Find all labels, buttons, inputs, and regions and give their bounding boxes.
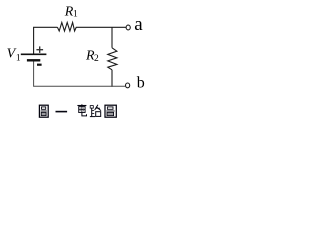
svg-text:1: 1 [16,54,21,64]
svg-text:b: b [137,75,145,92]
svg-text:a: a [134,14,143,35]
svg-text:1: 1 [73,10,78,20]
svg-text:2: 2 [94,54,99,64]
